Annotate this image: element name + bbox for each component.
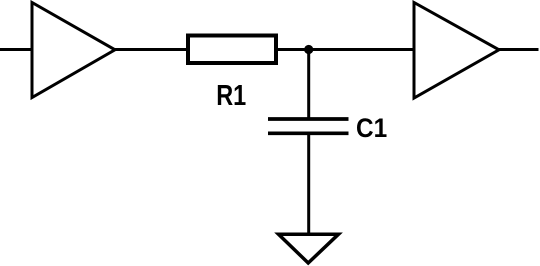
svg-text:C1: C1 bbox=[356, 113, 387, 143]
node A (junction dot) bbox=[304, 45, 313, 54]
wire: capacitor C1 down to ground bbox=[307, 133, 310, 234]
capacitor C1 bbox=[268, 119, 349, 133]
op-amp buffer (left) bbox=[32, 3, 115, 98]
wire: node A to right buffer bbox=[309, 48, 414, 51]
wire: resistor R1 to node A bbox=[278, 48, 309, 51]
wire: right buffer output bbox=[497, 48, 539, 51]
wire: input to left buffer bbox=[0, 48, 32, 51]
label C1 bbox=[356, 113, 387, 143]
op-amp buffer (right) bbox=[414, 3, 499, 99]
wire: node A down to capacitor C1 bbox=[307, 50, 310, 120]
label R1 bbox=[216, 80, 246, 112]
ground bbox=[279, 234, 339, 263]
resistor R1 bbox=[188, 36, 276, 64]
svg-text:R1: R1 bbox=[216, 80, 246, 112]
wire: left buffer output to resistor R1 bbox=[113, 48, 188, 51]
